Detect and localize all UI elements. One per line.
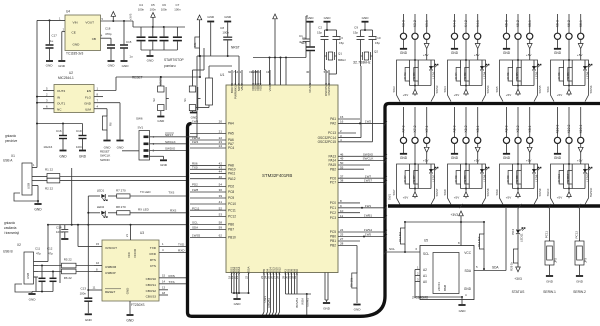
svg-text:ILIM: ILIM (85, 107, 91, 111)
svg-text:1k R4: 1k R4 (463, 72, 467, 80)
svg-text:X9-1: X9-1 (528, 125, 532, 132)
svg-text:SW7: SW7 (392, 189, 396, 196)
svg-text:GND: GND (126, 288, 130, 294)
svg-text:100n: 100n (76, 145, 83, 149)
svg-text:JP3: JP3 (584, 258, 588, 263)
svg-text:C13: C13 (80, 287, 86, 291)
svg-text:RXS: RXS (169, 274, 175, 278)
svg-text:LED1: LED1 (97, 189, 105, 193)
svg-text:GND: GND (307, 16, 315, 20)
svg-text:VCC: VCC (127, 252, 131, 258)
svg-text:C16: C16 (56, 129, 62, 133)
svg-text:10: 10 (340, 209, 344, 213)
svg-text:i transmisji: i transmisji (4, 231, 19, 235)
svg-text:C11: C11 (35, 247, 40, 251)
svg-text:PC11: PC11 (545, 231, 549, 239)
svg-text:SW4: SW4 (443, 86, 447, 93)
svg-text:SCL: SCL (389, 247, 395, 251)
svg-text:NRST: NRST (165, 133, 173, 137)
svg-text:PA1: PA1 (330, 117, 336, 121)
svg-text:30: 30 (306, 70, 310, 74)
svg-text:U3: U3 (140, 231, 144, 235)
svg-text:SDA: SDA (192, 226, 198, 230)
svg-text:A0: A0 (423, 280, 427, 284)
svg-text:TX0: TX0 (192, 166, 198, 170)
svg-text:GND: GND (234, 302, 242, 306)
svg-text:SW6: SW6 (546, 86, 550, 93)
svg-text:GND: GND (576, 280, 584, 284)
svg-text:2k R9: 2k R9 (506, 175, 510, 183)
svg-text:+3V3: +3V3 (450, 213, 458, 217)
svg-text:PD4: PD4 (511, 229, 515, 235)
svg-text:VSSA: VSSA (247, 266, 251, 274)
svg-text:GND: GND (503, 156, 511, 160)
svg-text:C12: C12 (47, 247, 53, 251)
svg-text:S2: S2 (152, 98, 156, 102)
svg-text:15: 15 (162, 274, 166, 278)
svg-text:1k R6: 1k R6 (566, 72, 570, 80)
svg-text:C15: C15 (126, 40, 132, 44)
svg-text:PC2: PC2 (330, 211, 336, 215)
svg-text:58: 58 (219, 221, 223, 225)
svg-text:SWS9: SWS9 (538, 188, 542, 196)
svg-text:GND: GND (191, 116, 199, 120)
svg-text:CB: CB (92, 37, 96, 41)
svg-text:24: 24 (219, 144, 223, 148)
svg-text:PA2: PA2 (330, 122, 336, 126)
svg-text:16: 16 (96, 261, 100, 265)
svg-text:FLG: FLG (85, 95, 92, 99)
svg-text:GND: GND (84, 101, 92, 105)
svg-text:SDA: SDA (464, 269, 471, 273)
svg-text:OUT2: OUT2 (57, 89, 66, 93)
svg-text:U4: U4 (66, 10, 70, 14)
svg-text:1WB1: 1WB1 (364, 214, 373, 218)
svg-text:RXD: RXD (178, 249, 185, 253)
svg-text:+5V: +5V (403, 93, 408, 97)
svg-text:15p: 15p (317, 31, 322, 35)
svg-text:+5V: +5V (423, 159, 430, 163)
svg-text:55: 55 (340, 165, 344, 169)
svg-text:RSVB1: RSVB1 (267, 298, 271, 308)
svg-text:GND: GND (85, 318, 93, 322)
svg-text:LED8: LED8 (482, 174, 486, 181)
svg-text:X7-1: X7-1 (425, 125, 429, 132)
svg-text:47p: 47p (36, 252, 41, 256)
svg-text:VDD4: VDD4 (259, 83, 263, 91)
svg-text:SDA: SDA (492, 266, 499, 270)
svg-text:49: 49 (340, 157, 344, 161)
svg-text:15: 15 (340, 115, 344, 119)
svg-text:+5V: +5V (526, 159, 533, 163)
svg-text:C17: C17 (52, 34, 58, 38)
svg-text:RTS: RTS (150, 258, 156, 262)
svg-text:GND: GND (464, 287, 472, 291)
svg-text:USB: USB (26, 273, 30, 279)
svg-text:GND: GND (546, 280, 554, 284)
svg-text:X10-1: X10-1 (579, 124, 583, 133)
svg-text:X6-2: X6-2 (567, 20, 571, 27)
svg-text:CBUS3: CBUS3 (146, 294, 157, 298)
svg-text:SERW.2: SERW.2 (573, 290, 586, 294)
svg-text:R2 22: R2 22 (45, 187, 53, 191)
svg-text:PC7: PC7 (330, 181, 336, 185)
svg-text:1k R10: 1k R10 (566, 173, 570, 182)
svg-text:Q1: Q1 (338, 52, 342, 56)
svg-text:EN: EN (87, 89, 91, 93)
svg-text:27: 27 (340, 237, 344, 241)
svg-text:4u7: 4u7 (301, 41, 306, 45)
svg-text:SW6: SW6 (136, 117, 143, 121)
svg-text:PB2: PB2 (330, 244, 336, 248)
svg-text:SWDIO: SWDIO (165, 147, 176, 151)
svg-text:MIC2544-1: MIC2544-1 (58, 76, 74, 80)
svg-text:1W4: 1W4 (192, 140, 199, 144)
svg-text:C10: C10 (375, 36, 381, 40)
svg-text:GND: GND (554, 51, 562, 55)
svg-text:NRST: NRST (231, 46, 240, 50)
svg-text:46: 46 (219, 175, 223, 179)
svg-text:21: 21 (235, 275, 239, 279)
svg-text:A1: A1 (423, 274, 427, 278)
svg-text:X5-1: X5-1 (528, 20, 532, 27)
svg-text:62: 62 (219, 234, 223, 238)
svg-text:CBUS1: CBUS1 (146, 283, 157, 287)
svg-text:+5V: +5V (474, 159, 481, 163)
svg-text:SW10: SW10 (546, 188, 550, 196)
svg-text:41: 41 (219, 200, 223, 204)
svg-text:VCC: VCC (464, 251, 471, 255)
svg-text:2k R7: 2k R7 (403, 175, 407, 183)
svg-text:PA4: PA4 (228, 122, 234, 126)
svg-text:SWS7: SWS7 (435, 188, 439, 196)
svg-text:R8 270: R8 270 (116, 205, 126, 209)
svg-text:VIN: VIN (73, 21, 78, 25)
svg-text:GND: GND (451, 51, 459, 55)
svg-text:LED11: LED11 (520, 233, 524, 242)
svg-text:X10-2: X10-2 (567, 124, 571, 133)
svg-text:RESET: RESET (105, 290, 115, 294)
svg-text:GND: GND (160, 163, 168, 167)
svg-text:59: 59 (219, 226, 223, 230)
svg-text:SW9: SW9 (495, 189, 499, 196)
svg-text:TC1185-3v3: TC1185-3v3 (66, 52, 84, 56)
svg-text:1W1: 1W1 (365, 204, 372, 208)
svg-text:PD2: PD2 (228, 185, 234, 189)
svg-text:28: 28 (340, 242, 344, 246)
svg-text:START/STOP: START/STOP (164, 58, 184, 62)
svg-text:64: 64 (257, 70, 261, 74)
svg-text:A2: A2 (423, 268, 427, 272)
svg-text:SWS8: SWS8 (486, 188, 490, 196)
svg-text:X2: X2 (17, 243, 21, 247)
svg-text:C2: C2 (318, 26, 322, 30)
svg-text:PA5: PA5 (228, 132, 234, 136)
svg-text:PA0: PA0 (295, 269, 299, 275)
svg-text:PA12: PA12 (228, 177, 236, 181)
svg-text:10k: 10k (193, 42, 197, 47)
svg-text:U2: U2 (69, 71, 73, 75)
svg-text:PC3: PC3 (330, 216, 336, 220)
svg-text:PC4: PC4 (228, 146, 234, 150)
svg-text:1WS4: 1WS4 (364, 228, 373, 232)
svg-text:BOVB1: BOVB1 (295, 298, 299, 308)
svg-text:X8-2: X8-2 (464, 125, 468, 132)
svg-text:GND: GND (451, 156, 459, 160)
svg-text:zasilania: zasilania (4, 226, 17, 230)
svg-text:PB7: PB7 (228, 228, 234, 232)
svg-text:LED5: LED5 (534, 71, 538, 78)
svg-text:PC5: PC5 (330, 230, 336, 234)
svg-text:TXD: TXD (178, 243, 185, 247)
svg-text:100n: 100n (150, 7, 157, 11)
svg-text:VDDA: VDDA (268, 83, 272, 91)
svg-text:STATUS: STATUS (512, 290, 526, 294)
svg-text:USBDP: USBDP (105, 271, 116, 275)
svg-text:JP2: JP2 (554, 258, 558, 263)
svg-text:TSUM1: TSUM1 (306, 298, 310, 308)
svg-text:RXD: RXD (149, 252, 156, 256)
svg-text:USBDM: USBDM (105, 265, 117, 269)
svg-text:1k R9: 1k R9 (515, 175, 519, 183)
svg-text:2k R4: 2k R4 (454, 72, 458, 80)
svg-text:+3V3: +3V3 (129, 13, 133, 20)
svg-text:1u: 1u (129, 55, 133, 59)
svg-text:15p: 15p (353, 31, 358, 35)
svg-text:1k R5: 1k R5 (515, 72, 519, 80)
svg-text:CE: CE (72, 31, 76, 35)
svg-text:GND: GND (207, 15, 215, 19)
svg-text:PB12: PB12 (278, 267, 282, 275)
svg-text:SWS6: SWS6 (589, 85, 593, 93)
svg-text:LED6: LED6 (585, 71, 589, 78)
svg-text:C9: C9 (354, 26, 358, 30)
svg-text:X5-2: X5-2 (516, 20, 520, 27)
svg-text:C3: C3 (339, 36, 343, 40)
svg-text:SWCLK: SWCLK (165, 140, 176, 144)
svg-text:+5V: +5V (577, 159, 584, 163)
svg-text:X7-2: X7-2 (413, 125, 417, 132)
svg-text:GND: GND (117, 146, 125, 150)
svg-text:1k R3: 1k R3 (412, 72, 416, 80)
svg-text:SWDIO: SWDIO (100, 158, 111, 162)
svg-text:X8-1: X8-1 (476, 125, 480, 132)
svg-text:24: 24 (340, 228, 344, 232)
svg-text:38: 38 (340, 179, 344, 183)
svg-text:X5-3: X5-3 (505, 20, 509, 27)
svg-text:PB6: PB6 (228, 223, 234, 227)
svg-text:+5V: +5V (557, 93, 562, 97)
svg-text:1W8: 1W8 (192, 188, 199, 192)
svg-text:GND: GND (324, 16, 332, 20)
svg-text:3V3OUT: 3V3OUT (105, 246, 117, 250)
svg-text:X9-2: X9-2 (516, 125, 520, 132)
svg-text:C19: C19 (76, 129, 82, 133)
svg-text:X7-3: X7-3 (402, 125, 406, 132)
svg-text:WOA: WOA (301, 298, 305, 305)
svg-text:+3V3: +3V3 (514, 277, 522, 281)
svg-text:2k R3: 2k R3 (403, 72, 407, 80)
svg-text:GND: GND (459, 309, 467, 313)
svg-text:R6: R6 (109, 122, 113, 126)
svg-text:28: 28 (276, 275, 280, 279)
svg-text:PA14: PA14 (328, 159, 336, 163)
svg-text:R11 5k6: R11 5k6 (398, 231, 402, 242)
svg-text:GND: GND (29, 298, 37, 302)
svg-text:25: 25 (340, 233, 344, 237)
svg-text:RESET: RESET (132, 76, 143, 80)
svg-text:2k R8: 2k R8 (454, 175, 458, 183)
svg-text:C8: C8 (220, 26, 224, 30)
svg-text:32.768kHz: 32.768kHz (353, 61, 371, 65)
svg-text:RX LED: RX LED (138, 208, 150, 212)
svg-text:52: 52 (219, 206, 223, 210)
svg-text:PC11: PC11 (192, 206, 200, 210)
svg-text:X6-1: X6-1 (579, 20, 583, 27)
svg-text:NC: NC (57, 107, 62, 111)
svg-text:SERW.1: SERW.1 (543, 290, 556, 294)
svg-text:RXS: RXS (170, 208, 176, 212)
svg-text:CBUS2: CBUS2 (146, 289, 157, 293)
svg-text:PB2: PB2 (330, 167, 336, 171)
svg-text:20: 20 (219, 120, 223, 124)
svg-text:SWS5: SWS5 (538, 85, 542, 93)
svg-text:CTS: CTS (150, 264, 156, 268)
svg-text:24C64: 24C64 (437, 282, 441, 291)
svg-text:LED10: LED10 (585, 173, 589, 182)
svg-text:1WS7: 1WS7 (364, 179, 373, 183)
svg-text:GND: GND (46, 64, 54, 68)
svg-text:GND: GND (400, 51, 408, 55)
svg-text:X4-2: X4-2 (464, 20, 468, 27)
svg-text:LED9: LED9 (534, 174, 538, 181)
svg-text:LED7: LED7 (431, 174, 435, 181)
svg-text:15: 15 (96, 242, 100, 246)
svg-text:X6-3: X6-3 (556, 20, 560, 27)
svg-text:VOUT: VOUT (85, 21, 94, 25)
svg-text:39: 39 (219, 194, 223, 198)
svg-text:PC11: PC11 (228, 208, 236, 212)
svg-text:SW1: SW1 (388, 193, 392, 200)
svg-text:TX LED: TX LED (140, 190, 151, 194)
svg-text:PC13: PC13 (328, 131, 336, 135)
svg-text:24C64BM8: 24C64BM8 (412, 296, 428, 300)
svg-text:R9 10k: R9 10k (350, 277, 354, 287)
svg-text:2k R5: 2k R5 (506, 72, 510, 80)
svg-text:Q2: Q2 (374, 50, 378, 54)
svg-text:C1: C1 (302, 36, 306, 40)
svg-text:CBUS0: CBUS0 (146, 277, 157, 281)
svg-text:GND: GND (126, 319, 134, 323)
svg-text:STM32F401RB: STM32F401RB (262, 173, 292, 178)
svg-text:PD2: PD2 (192, 183, 198, 187)
svg-text:1u: 1u (50, 39, 54, 43)
svg-text:100n: 100n (80, 292, 87, 296)
svg-text:R29 1k: R29 1k (510, 261, 514, 270)
svg-text:+5V: +5V (526, 53, 533, 57)
svg-text:USB: USB (27, 183, 31, 189)
svg-text:GND: GND (554, 156, 562, 160)
svg-text:54: 54 (219, 183, 223, 187)
svg-text:gniazdo: gniazdo (5, 134, 16, 138)
svg-text:GND: GND (224, 15, 232, 19)
svg-text:SWS3: SWS3 (435, 85, 439, 93)
svg-text:+5V: +5V (454, 93, 459, 97)
svg-text:2k R10: 2k R10 (557, 173, 561, 182)
svg-text:R12 5k6: R12 5k6 (477, 236, 481, 247)
svg-text:gniazdo: gniazdo (4, 221, 15, 225)
svg-text:1W3: 1W3 (192, 120, 199, 124)
svg-text:100n: 100n (161, 7, 168, 11)
svg-text:GND: GND (503, 51, 511, 55)
svg-text:44: 44 (219, 170, 223, 174)
svg-text:LED2: LED2 (97, 205, 105, 209)
svg-text:47p: 47p (48, 252, 53, 256)
svg-text:TXD: TXD (150, 246, 157, 250)
svg-text:OSC32PC15: OSC32PC15 (318, 140, 337, 144)
svg-text:GND: GND (59, 155, 67, 159)
svg-text:1k R8: 1k R8 (463, 175, 467, 183)
svg-text:X3-2: X3-2 (413, 20, 417, 27)
svg-text:13: 13 (162, 286, 166, 290)
svg-text:X3-3: X3-3 (402, 20, 406, 27)
svg-text:IN: IN (57, 95, 60, 99)
svg-text:SCL: SCL (423, 252, 429, 256)
svg-text:GND: GND (34, 208, 42, 212)
svg-text:GND: GND (354, 308, 362, 312)
svg-text:X4-3: X4-3 (453, 20, 457, 27)
svg-text:SW8: SW8 (443, 189, 447, 196)
svg-text:OUT1: OUT1 (57, 101, 66, 105)
svg-text:SWCLK: SWCLK (363, 157, 374, 161)
svg-text:USB A: USB A (3, 159, 13, 163)
svg-text:GND: GND (58, 64, 66, 68)
svg-text:100n: 100n (222, 31, 229, 35)
svg-text:X4-1: X4-1 (476, 20, 480, 27)
svg-text:+5V: +5V (506, 93, 511, 97)
svg-text:SCL: SCL (192, 221, 198, 225)
svg-text:+5V: +5V (577, 53, 584, 57)
svg-text:+5V: +5V (474, 53, 481, 57)
svg-text:VSS4: VSS4 (237, 266, 241, 274)
svg-text:+5V: +5V (506, 196, 511, 200)
svg-text:21: 21 (219, 130, 223, 134)
svg-text:GND: GND (323, 307, 331, 311)
svg-text:GND: GND (147, 59, 155, 63)
svg-text:U1: U1 (220, 73, 224, 77)
svg-text:PB1: PB1 (330, 239, 336, 243)
svg-text:30: 30 (219, 188, 223, 192)
svg-text:PC8: PC8 (228, 190, 234, 194)
svg-text:FT230XS: FT230XS (131, 303, 144, 307)
svg-text:GND: GND (79, 155, 87, 159)
svg-text:470p: 470p (105, 32, 112, 36)
svg-text:60: 60 (228, 70, 232, 74)
svg-text:SW5: SW5 (495, 86, 499, 93)
svg-text:USB B: USB B (3, 249, 13, 253)
svg-text:R6 22: R6 22 (64, 276, 72, 280)
svg-text:X9-3: X9-3 (505, 125, 509, 132)
svg-text:14: 14 (162, 280, 166, 284)
svg-text:10u/16: 10u/16 (43, 145, 52, 149)
svg-text:LED3: LED3 (431, 71, 435, 78)
svg-text:LED4: LED4 (482, 71, 486, 78)
svg-text:53: 53 (219, 213, 223, 217)
svg-text:100n: 100n (174, 7, 181, 11)
svg-text:C18: C18 (105, 27, 111, 31)
svg-text:X10-3: X10-3 (556, 124, 560, 133)
svg-text:PC12: PC12 (575, 231, 579, 239)
